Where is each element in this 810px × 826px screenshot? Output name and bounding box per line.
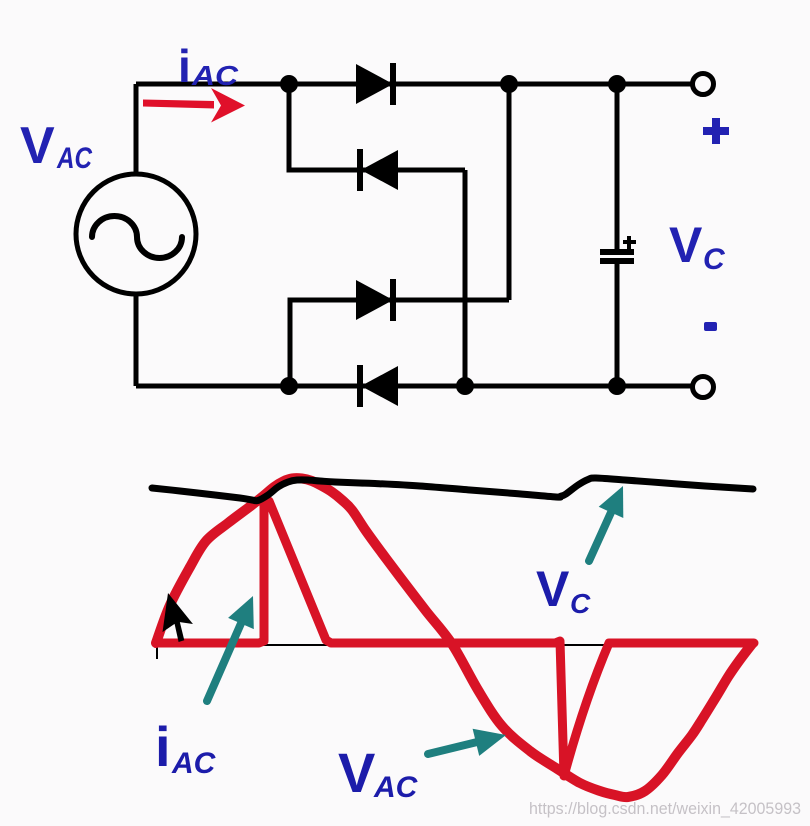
teal arrow to V_AC sine bbox=[428, 729, 506, 756]
svg-text:V: V bbox=[20, 117, 55, 175]
capacitor polarity + mark bbox=[623, 236, 636, 249]
svg-text:https://blog.csdn.net/weixin_4: https://blog.csdn.net/weixin_42005993 bbox=[529, 799, 801, 818]
svg-text:V: V bbox=[669, 217, 703, 273]
terminal + output bbox=[693, 74, 714, 95]
capacitor C plates bbox=[600, 252, 634, 261]
waveform i_AC red curve bbox=[156, 501, 754, 776]
diode D4 (bottom, points left) bbox=[357, 365, 398, 407]
svg-text:AC: AC bbox=[191, 60, 239, 91]
AC source sine symbol bbox=[92, 216, 182, 258]
junction node top-B bbox=[500, 75, 518, 93]
wire capacitor top lead bbox=[615, 84, 620, 249]
wire node A drop to D2 row bbox=[289, 84, 465, 170]
diode D1 (top, points right) bbox=[356, 63, 396, 105]
svg-text:AC: AC bbox=[171, 747, 217, 780]
teal arrow to i_AC spike bbox=[207, 596, 254, 701]
waveform V_C black curve bbox=[152, 478, 753, 501]
diode D3 (points right) bbox=[356, 279, 396, 321]
wire D3 row bbox=[290, 300, 509, 386]
current arrow i_AC (red) bbox=[143, 100, 214, 109]
svg-text:V: V bbox=[536, 561, 570, 617]
junction node top-C (cap) bbox=[608, 75, 626, 93]
label - terminal bbox=[704, 322, 717, 331]
label + terminal bbox=[703, 118, 729, 144]
waveform x-axis bbox=[152, 645, 750, 659]
junction node bottom-B bbox=[456, 377, 474, 395]
svg-text:AC: AC bbox=[373, 771, 419, 804]
teal arrow to V_C curve bbox=[589, 486, 623, 561]
wire D3 output rise to top rail bbox=[507, 84, 512, 300]
diode D2 (points left) bbox=[357, 149, 398, 191]
wire capacitor bottom lead bbox=[615, 262, 620, 386]
svg-text:V: V bbox=[338, 741, 375, 804]
svg-text:C: C bbox=[570, 588, 591, 619]
wire source top lead bbox=[134, 84, 139, 176]
junction node top-A bbox=[280, 75, 298, 93]
junction node bottom-A bbox=[280, 377, 298, 395]
mouse cursor bbox=[161, 593, 196, 644]
wire bottom rail bbox=[136, 384, 691, 389]
wire D2 output drop to bottom rail bbox=[463, 170, 468, 386]
svg-text:AC: AC bbox=[56, 142, 93, 175]
waveform V_AC red sine bbox=[156, 478, 752, 797]
junction node bottom-C (cap) bbox=[608, 377, 626, 395]
wire source bottom lead bbox=[134, 293, 139, 386]
wire top rail bbox=[136, 82, 691, 87]
svg-text:i: i bbox=[178, 40, 191, 92]
svg-text:i: i bbox=[155, 715, 171, 778]
terminal - output bbox=[693, 377, 714, 398]
AC source V_AC circle bbox=[76, 174, 196, 294]
svg-text:C: C bbox=[703, 243, 726, 276]
